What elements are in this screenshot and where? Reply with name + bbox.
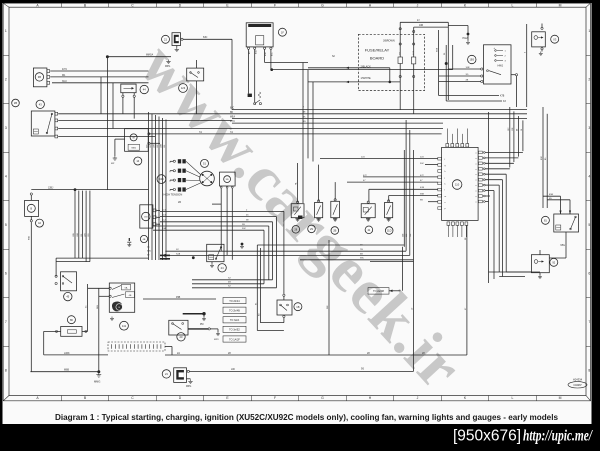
svg-text:G: G bbox=[321, 3, 324, 7]
svg-text:MB1: MB1 bbox=[132, 148, 137, 150]
svg-text:8: 8 bbox=[5, 369, 7, 373]
svg-text:MMGA: MMGA bbox=[146, 54, 154, 57]
svg-text:7: 7 bbox=[5, 320, 7, 324]
svg-text:2B: 2B bbox=[333, 229, 336, 233]
svg-text:MPG: MPG bbox=[186, 386, 191, 388]
svg-text:6B: 6B bbox=[230, 112, 233, 114]
svg-text:30C: 30C bbox=[242, 228, 246, 230]
svg-text:12M: 12M bbox=[77, 233, 79, 237]
svg-text:12BJ: 12BJ bbox=[48, 187, 53, 189]
svg-text:2R: 2R bbox=[178, 201, 181, 204]
svg-text:TO 3d/A: TO 3d/A bbox=[230, 319, 240, 322]
svg-text:3: 3 bbox=[5, 126, 7, 130]
svg-text:11D: 11D bbox=[387, 229, 392, 233]
svg-text:J: J bbox=[417, 396, 419, 400]
svg-text:o: o bbox=[476, 202, 477, 204]
svg-text:141: 141 bbox=[122, 324, 127, 328]
svg-text:3B: 3B bbox=[38, 75, 41, 79]
svg-text:o: o bbox=[476, 174, 477, 176]
svg-text:38C: 38C bbox=[360, 258, 364, 260]
svg-text:g: g bbox=[445, 165, 446, 167]
svg-text:1: 1 bbox=[5, 29, 7, 33]
svg-text:M: M bbox=[559, 3, 562, 7]
svg-text:1E6: 1E6 bbox=[469, 58, 474, 62]
svg-text:10R: 10R bbox=[419, 25, 424, 27]
svg-text:F: F bbox=[274, 396, 276, 400]
svg-text:K7B: K7B bbox=[500, 96, 505, 98]
svg-text:L: L bbox=[512, 396, 514, 400]
svg-text:123: 123 bbox=[181, 86, 186, 90]
svg-text:2J: 2J bbox=[417, 20, 419, 22]
svg-text:M5L: M5L bbox=[561, 245, 566, 247]
svg-text:B3C: B3C bbox=[272, 52, 274, 56]
svg-text:h: h bbox=[445, 171, 446, 173]
svg-text:32U: 32U bbox=[147, 251, 151, 253]
svg-text:G: G bbox=[321, 396, 324, 400]
svg-text:TO 1A/2F: TO 1A/2F bbox=[229, 338, 240, 341]
svg-text:E5R: E5R bbox=[541, 156, 543, 160]
svg-text:B: B bbox=[30, 206, 32, 210]
svg-text:M: M bbox=[559, 396, 562, 400]
svg-text:B5: B5 bbox=[545, 158, 547, 160]
svg-text:6: 6 bbox=[588, 272, 590, 276]
svg-text:o: o bbox=[476, 169, 477, 171]
svg-text:M: M bbox=[133, 137, 135, 140]
svg-text:63C: 63C bbox=[203, 36, 208, 39]
svg-text:1F: 1F bbox=[281, 30, 284, 34]
svg-text:9S: 9S bbox=[361, 367, 364, 370]
svg-text:30C: 30C bbox=[420, 163, 424, 165]
svg-text:[950x676]: [950x676] bbox=[453, 428, 521, 445]
svg-text:36B: 36B bbox=[420, 193, 424, 195]
svg-text:L06K: L06K bbox=[64, 352, 70, 355]
svg-text:4: 4 bbox=[5, 175, 7, 179]
svg-text:FUSE/RELAY: FUSE/RELAY bbox=[365, 48, 390, 53]
svg-text:Diagram 1 : Typical starting,: Diagram 1 : Typical starting, charging, … bbox=[55, 413, 559, 422]
svg-text:16: 16 bbox=[521, 129, 523, 131]
svg-text:4: 4 bbox=[588, 175, 590, 179]
svg-text:4/7C: 4/7C bbox=[230, 121, 235, 123]
svg-text:o: o bbox=[476, 158, 477, 160]
svg-text:HIGH TENSION: HIGH TENSION bbox=[164, 193, 183, 197]
svg-text:85B: 85B bbox=[29, 236, 31, 240]
svg-text:B3: B3 bbox=[249, 52, 251, 54]
svg-text:6: 6 bbox=[5, 272, 7, 276]
svg-text:http://upic.me/: http://upic.me/ bbox=[523, 428, 593, 445]
svg-text:134: 134 bbox=[159, 177, 164, 181]
svg-text:F: F bbox=[274, 3, 276, 7]
svg-text:X3: X3 bbox=[553, 37, 557, 41]
svg-text:3: 3 bbox=[588, 126, 590, 130]
svg-text:CA9987: CA9987 bbox=[573, 384, 582, 387]
svg-text:o: o bbox=[476, 185, 477, 187]
svg-text:1B: 1B bbox=[296, 305, 299, 309]
svg-text:47C: 47C bbox=[363, 175, 367, 177]
svg-text:1: 1 bbox=[588, 29, 590, 33]
svg-text:110: 110 bbox=[455, 183, 460, 187]
svg-text:3UU: 3UU bbox=[62, 80, 67, 83]
svg-text:12U: 12U bbox=[88, 233, 90, 237]
svg-text:HWJ: HWJ bbox=[498, 64, 504, 68]
svg-text:2A: 2A bbox=[177, 352, 180, 355]
svg-text:MPG: MPG bbox=[165, 66, 170, 68]
svg-text:32A: 32A bbox=[162, 227, 166, 230]
svg-text:W6E: W6E bbox=[437, 47, 439, 52]
svg-text:o: o bbox=[476, 163, 477, 165]
svg-text:MP3: MP3 bbox=[214, 339, 219, 341]
svg-text:185: 185 bbox=[226, 179, 229, 181]
svg-text:10R: 10R bbox=[466, 67, 470, 69]
svg-text:o: o bbox=[476, 152, 477, 154]
svg-text:TO 2a/D8: TO 2a/D8 bbox=[373, 290, 384, 293]
svg-text:12R: 12R bbox=[154, 144, 156, 148]
svg-text:o: o bbox=[476, 180, 477, 182]
svg-text:4/7C: 4/7C bbox=[62, 68, 67, 71]
svg-text:k: k bbox=[445, 184, 446, 186]
svg-text:BOARD: BOARD bbox=[370, 56, 384, 61]
svg-text:n: n bbox=[445, 202, 446, 204]
svg-text:F6: F6 bbox=[444, 53, 446, 55]
svg-text:MMG: MMG bbox=[94, 380, 100, 384]
svg-text:7A: 7A bbox=[230, 131, 233, 134]
svg-text:47C: 47C bbox=[420, 175, 424, 177]
svg-text:E5R: E5R bbox=[549, 194, 554, 196]
svg-text:L: L bbox=[512, 3, 514, 7]
svg-text:3/BROWN: 3/BROWN bbox=[383, 40, 395, 43]
svg-text:2B: 2B bbox=[14, 101, 17, 105]
svg-text:2C: 2C bbox=[147, 247, 150, 249]
svg-text:MP: MP bbox=[111, 163, 115, 165]
svg-text:PM: PM bbox=[200, 324, 204, 326]
svg-text:5: 5 bbox=[5, 223, 7, 227]
svg-text:7A: 7A bbox=[199, 131, 202, 134]
svg-text:1/WHITE: 1/WHITE bbox=[361, 77, 371, 80]
svg-text:o: o bbox=[476, 191, 477, 193]
svg-text:8: 8 bbox=[588, 369, 590, 373]
svg-text:H24334: H24334 bbox=[573, 378, 583, 382]
svg-text:TO 3e/E2: TO 3e/E2 bbox=[229, 329, 240, 332]
svg-text:M6B: M6B bbox=[64, 369, 69, 372]
svg-text:S2A: S2A bbox=[176, 252, 181, 255]
svg-text:2: 2 bbox=[5, 78, 7, 82]
svg-text:o: o bbox=[476, 196, 477, 198]
svg-text:TO 2b/44: TO 2b/44 bbox=[229, 300, 240, 303]
svg-text:12M: 12M bbox=[161, 144, 163, 148]
svg-text:7: 7 bbox=[588, 320, 590, 324]
svg-text:2: 2 bbox=[588, 78, 590, 82]
svg-text:5: 5 bbox=[588, 223, 590, 227]
svg-text:45B: 45B bbox=[176, 296, 181, 299]
svg-text:MEA: MEA bbox=[230, 116, 235, 119]
svg-text:47A: 47A bbox=[420, 186, 424, 189]
svg-text:3D: 3D bbox=[466, 74, 469, 76]
svg-text:TO 2b/4B: TO 2b/4B bbox=[229, 310, 240, 313]
svg-text:J: J bbox=[417, 3, 419, 7]
svg-text:PH2: PH2 bbox=[463, 36, 469, 40]
